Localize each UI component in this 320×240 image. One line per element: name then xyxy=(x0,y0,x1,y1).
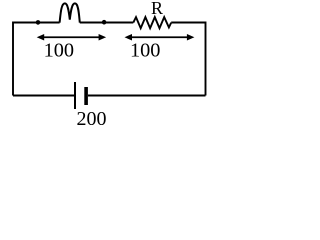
wire bottom-right segment xyxy=(88,95,206,97)
dimension arrow 2 right head xyxy=(187,34,195,41)
dimension arrow 1 right head xyxy=(99,34,107,41)
svg-text:R: R xyxy=(151,0,163,18)
wire bottom-left segment xyxy=(13,95,74,97)
node dot (right junction) xyxy=(102,20,107,25)
dimension arrow 2 left head xyxy=(125,34,133,41)
wire top-middle segment xyxy=(80,22,134,24)
wire top-right segment with right vertical side xyxy=(171,23,205,96)
dimension arrow 1 left head xyxy=(37,34,45,41)
battery cell: long thin plate xyxy=(74,82,76,109)
resistor R (zigzag) xyxy=(133,17,171,28)
battery cell: short thick plate xyxy=(84,87,88,105)
svg-text:100: 100 xyxy=(130,39,160,61)
node dot (left junction) xyxy=(36,20,41,25)
dimension arrow 1 shaft xyxy=(42,36,101,38)
inductor L (two-loop coil) xyxy=(60,3,80,22)
svg-text:100: 100 xyxy=(44,39,74,61)
svg-text:200: 200 xyxy=(77,108,107,130)
dimension arrow 2 shaft xyxy=(129,36,190,38)
wire top-left segment with left vertical side xyxy=(13,23,60,96)
